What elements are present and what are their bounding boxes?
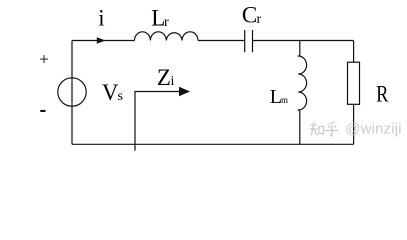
svg-text:Z: Z [157,65,171,90]
svg-text:R: R [376,81,388,108]
svg-text:@winziji: @winziji [345,121,401,138]
svg-text:r: r [164,15,169,30]
svg-text:m: m [281,95,288,105]
svg-text:s: s [118,89,123,104]
svg-text:r: r [257,12,262,27]
svg-text:V: V [102,80,119,105]
svg-text:C: C [242,3,257,28]
svg-text:i: i [171,74,175,89]
svg-text:+: + [39,50,49,69]
svg-text:i: i [98,6,104,31]
